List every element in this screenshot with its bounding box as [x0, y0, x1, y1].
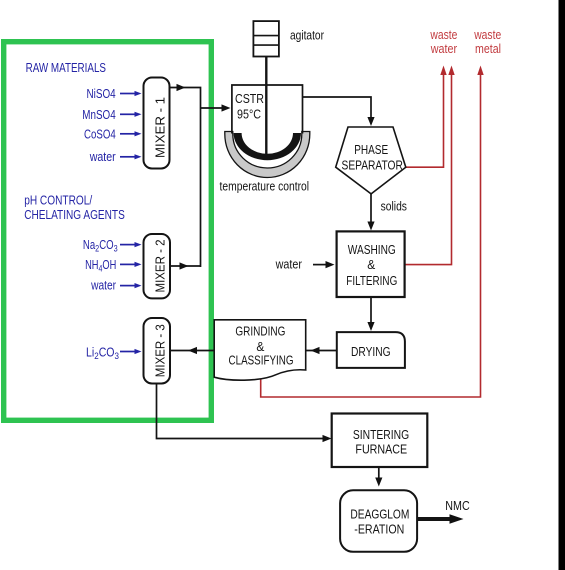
svg-text:FURNACE: FURNACE [355, 443, 407, 457]
svg-text:95°C: 95°C [237, 108, 261, 122]
svg-text:DRYING: DRYING [351, 345, 391, 359]
svg-text:&: & [256, 340, 265, 354]
svg-text:SEPARATOR: SEPARATOR [342, 158, 403, 172]
svg-text:pH CONTROL/: pH CONTROL/ [24, 194, 92, 208]
svg-text:PHASE: PHASE [354, 143, 388, 157]
svg-text:CoSO4: CoSO4 [84, 127, 116, 141]
svg-text:water: water [275, 257, 302, 271]
svg-text:CSTR: CSTR [235, 92, 264, 106]
svg-text:CHELATING AGENTS: CHELATING AGENTS [24, 208, 125, 222]
svg-text:waste: waste [430, 28, 458, 42]
svg-text:waste: waste [473, 28, 501, 42]
svg-text:GRINDING: GRINDING [235, 324, 285, 338]
svg-text:MIXER - 1: MIXER - 1 [153, 97, 168, 158]
svg-text:water: water [89, 150, 116, 164]
svg-text:metal: metal [475, 42, 501, 56]
svg-text:WASHING: WASHING [348, 243, 396, 257]
svg-text:&: & [367, 258, 376, 272]
svg-text:MIXER - 2: MIXER - 2 [153, 240, 168, 293]
svg-text:CLASSIFYING: CLASSIFYING [229, 354, 294, 368]
svg-text:-ERATION: -ERATION [354, 522, 404, 536]
svg-text:water: water [90, 279, 116, 293]
svg-text:DEAGGLOM: DEAGGLOM [350, 508, 409, 522]
svg-text:FILTERING: FILTERING [346, 274, 397, 288]
svg-text:temperature control: temperature control [220, 180, 310, 194]
svg-text:NiSO4: NiSO4 [87, 87, 116, 101]
svg-text:agitator: agitator [290, 29, 324, 43]
svg-text:solids: solids [381, 200, 407, 214]
svg-text:NMC: NMC [445, 499, 469, 513]
svg-text:MIXER - 3: MIXER - 3 [153, 324, 168, 377]
svg-text:RAW MATERIALS: RAW MATERIALS [26, 61, 106, 75]
svg-text:MnSO4: MnSO4 [82, 108, 115, 122]
svg-text:SINTERING: SINTERING [353, 428, 409, 442]
svg-text:water: water [430, 42, 457, 56]
